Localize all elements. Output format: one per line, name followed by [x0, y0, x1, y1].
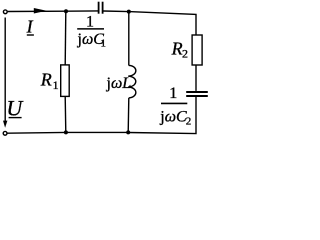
capacitor C1 right plate [102, 2, 104, 14]
svg-text:jωL: jωL [106, 75, 132, 92]
wire: capacitor C1 to node B [103, 10, 129, 13]
node D: junction dot bottom of L [126, 130, 130, 134]
svg-text:2: 2 [182, 47, 188, 61]
svg-text:I: I [26, 16, 34, 36]
resistor R1 box [61, 65, 69, 97]
capacitor C2 bottom plate [186, 95, 208, 97]
svg-text:1: 1 [101, 38, 107, 50]
svg-text:R: R [171, 38, 183, 58]
terminal: top-left port [3, 10, 7, 14]
wire: top-left terminal to node A [8, 10, 66, 12]
wire: L bottom lead [127, 98, 130, 132]
node B: junction dot top of L [127, 10, 131, 14]
wire: node B to top-right corner down to R2 [129, 12, 196, 36]
wire: R2 bottom to capacitor C2 [195, 65, 197, 91]
wire: capacitor C2 down to bottom-right corner [129, 97, 197, 134]
value label 1/jωC2 (fraction bar) [161, 102, 187, 104]
node A: junction dot top of R1 [64, 9, 68, 13]
wire: L top lead [128, 12, 130, 66]
node C: junction dot bottom of R1 [64, 130, 68, 134]
svg-text:1: 1 [169, 85, 177, 102]
wire: R1 bottom lead [64, 96, 67, 132]
terminal: bottom-left port [3, 131, 7, 135]
resistor R2 box [192, 35, 202, 65]
value label 1/jωC1 (fraction bar) [77, 28, 104, 30]
current arrow I [34, 8, 47, 14]
svg-text:R: R [40, 70, 52, 90]
capacitor C1 left plate [98, 2, 100, 14]
inductor L coil [128, 65, 136, 98]
svg-text:U: U [6, 96, 24, 121]
svg-text:1: 1 [86, 14, 94, 31]
svg-text:1: 1 [53, 78, 59, 92]
voltage arrow U (shaft) [4, 18, 6, 122]
svg-text:jωC: jωC [159, 108, 187, 125]
wire: bottom middle segment node D to node C [66, 131, 129, 133]
wire: R1 top lead [64, 11, 67, 65]
capacitor C2 top plate [186, 91, 208, 93]
voltage arrow U (head) [3, 121, 7, 128]
svg-text:2: 2 [186, 115, 192, 127]
wire: bottom-left segment node C to terminal [7, 131, 66, 134]
wire: node A to capacitor C1 [66, 10, 98, 12]
